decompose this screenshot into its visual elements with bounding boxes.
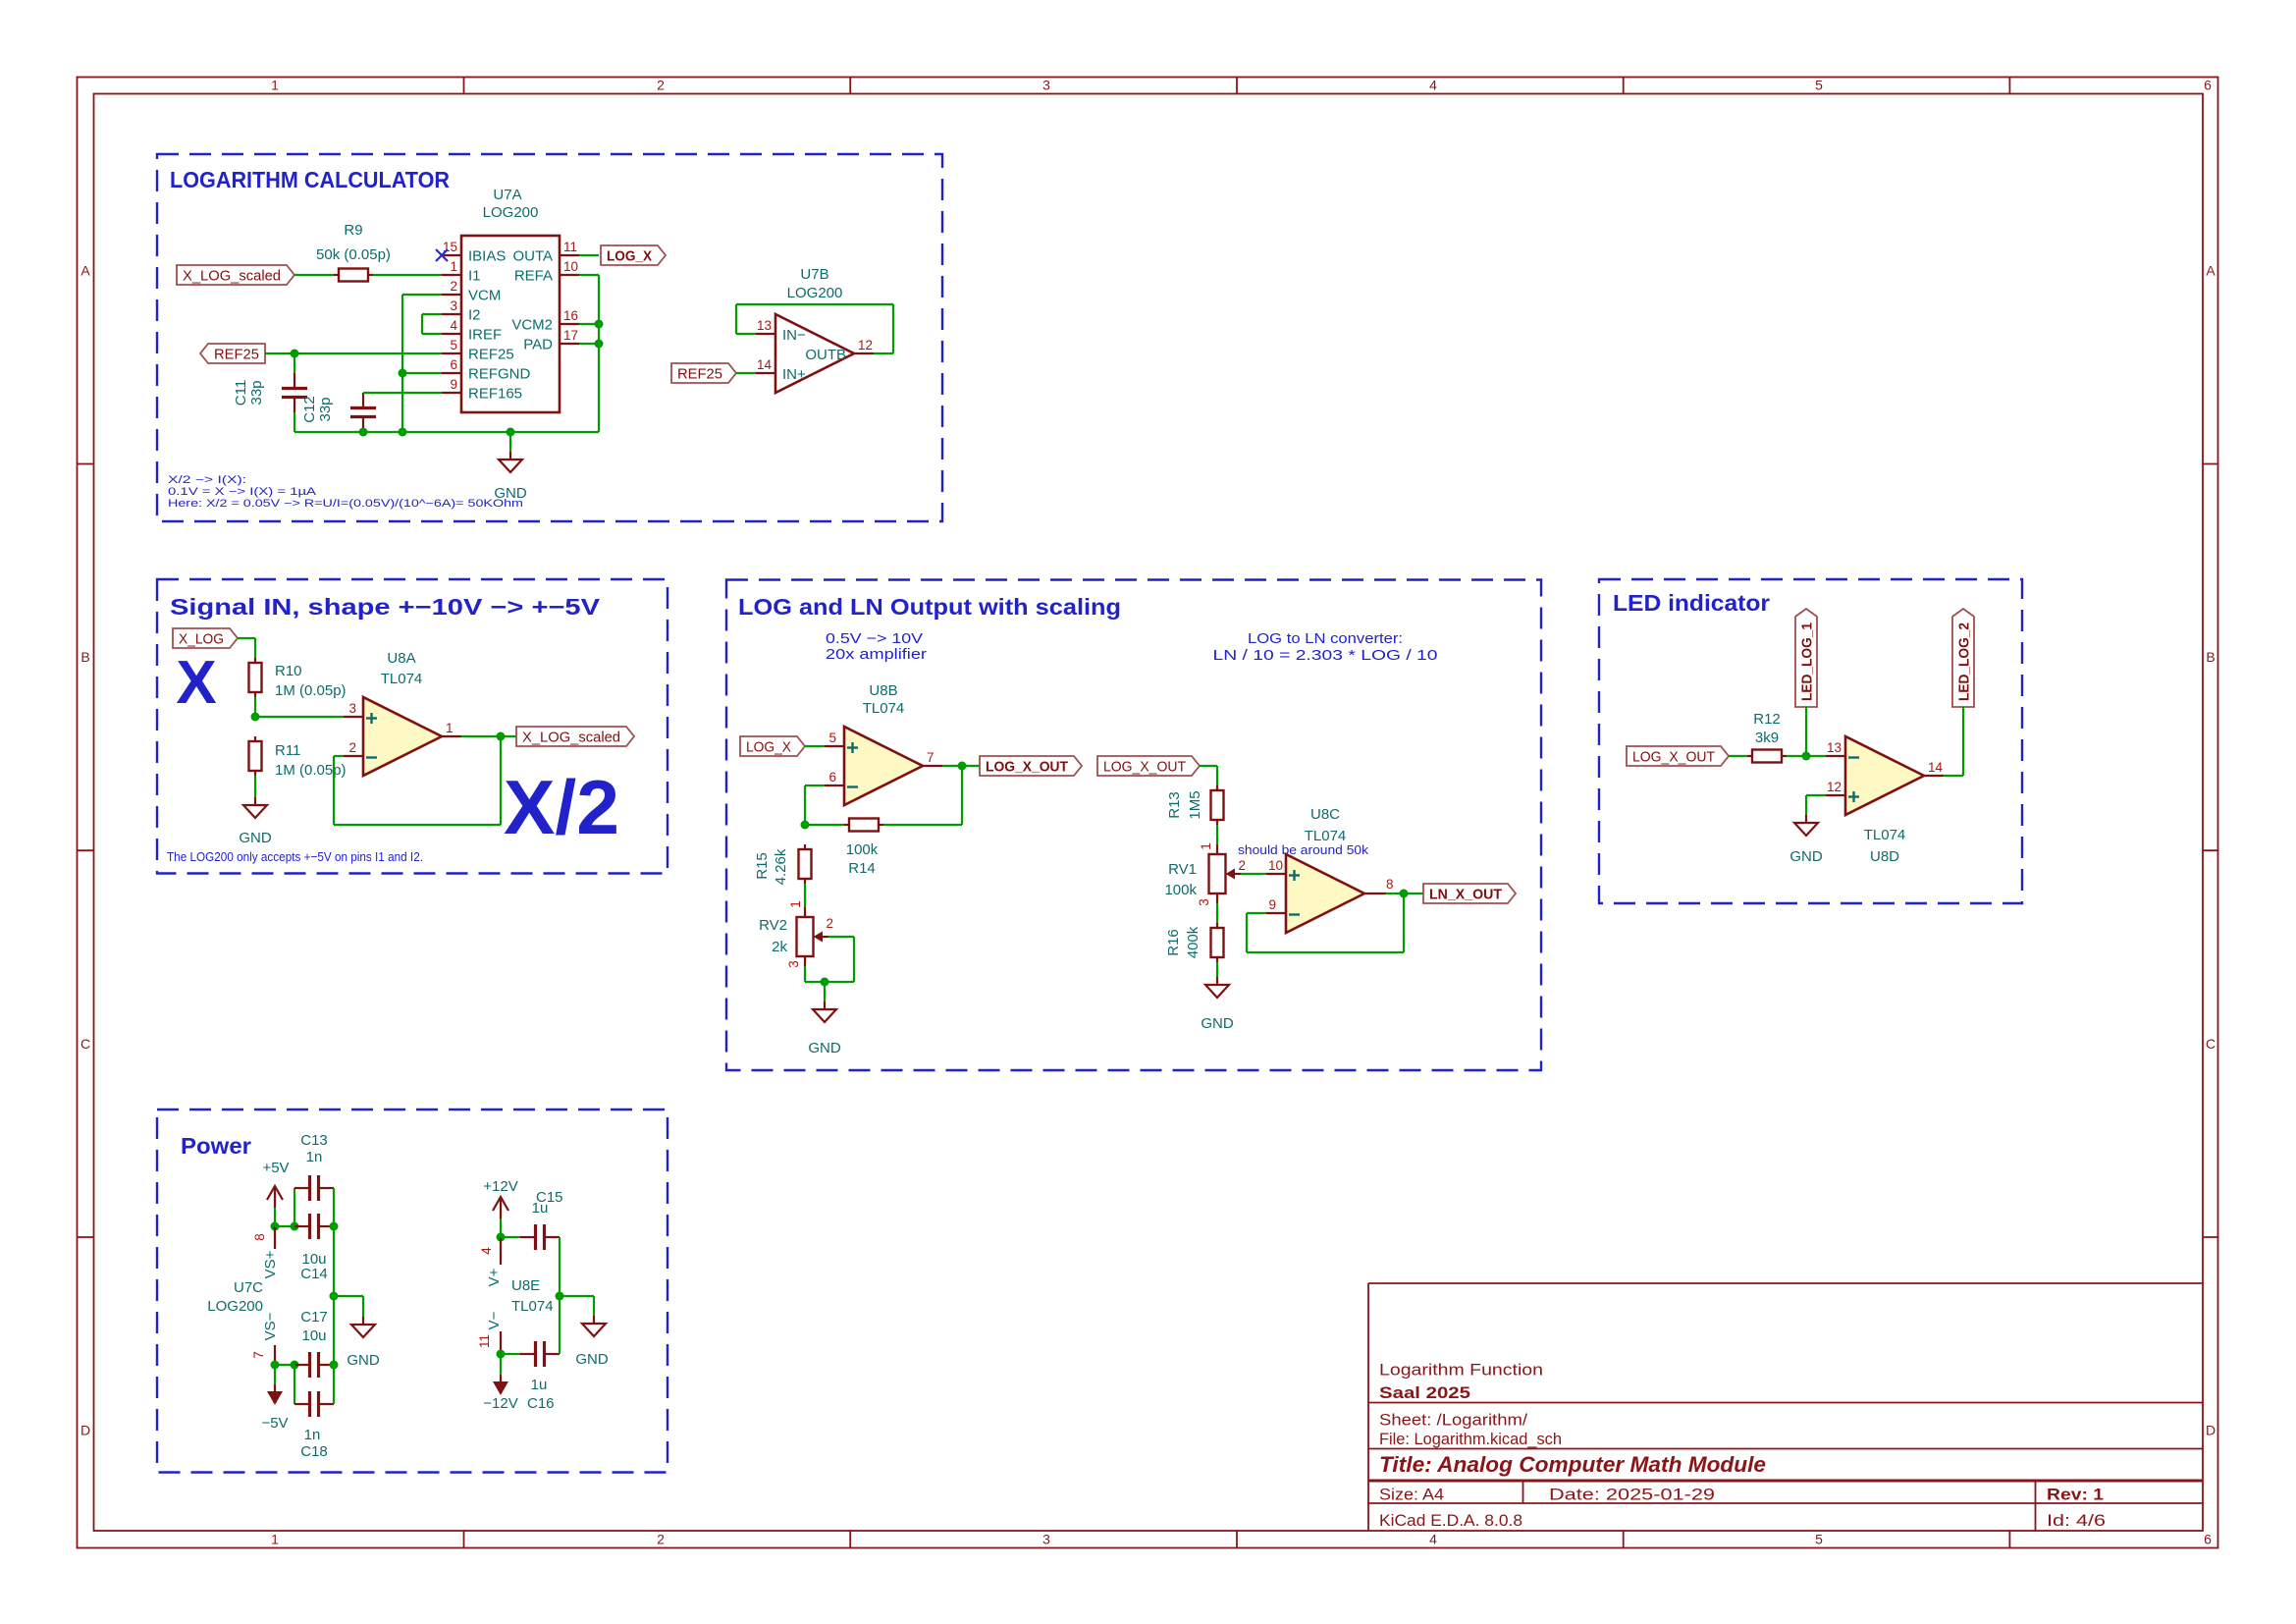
wire PAD [579, 343, 599, 345]
power +5V arrow [267, 1186, 283, 1226]
wire to U7A pin 6 REFGND [402, 372, 442, 374]
svg-text:100k: 100k [846, 841, 879, 858]
wire C11 to ground rail [294, 412, 295, 432]
power +12V arrow [493, 1197, 508, 1237]
svg-text:LOGARITHM CALCULATOR: LOGARITHM CALCULATOR [170, 167, 450, 192]
U8C pin 8 output [1364, 877, 1394, 893]
wire -5V rail [275, 1364, 294, 1366]
wire REF25 to U7B IN+ [736, 372, 756, 374]
svg-text:10: 10 [563, 259, 578, 274]
svg-text:5: 5 [1815, 1532, 1823, 1547]
svg-text:100k: 100k [1164, 882, 1197, 898]
svg-text:C18: C18 [300, 1443, 328, 1460]
svg-text:LOG200: LOG200 [207, 1298, 263, 1315]
svg-text:2: 2 [450, 279, 457, 294]
svg-text:Logarithm Function: Logarithm Function [1379, 1361, 1543, 1380]
resistor R14 [844, 819, 883, 832]
svg-text:1: 1 [271, 1532, 279, 1547]
wire LOG_X_OUT [1200, 765, 1217, 767]
hierarchical label LOG_X (box3) [740, 736, 805, 756]
svg-text:LED_LOG_1: LED_LOG_1 [1799, 623, 1816, 701]
wire C13 right leg [333, 1188, 335, 1226]
R14 labels [846, 841, 879, 877]
potentiometer RV2 2k [797, 907, 829, 966]
wire +5V rail [275, 1225, 294, 1227]
svg-text:5: 5 [828, 731, 836, 745]
wire U7B feedback 3 [736, 303, 893, 305]
op-amp U8C labels [1305, 806, 1347, 844]
svg-text:TL074: TL074 [1864, 827, 1906, 843]
wire to ground (box5 right) [560, 1295, 594, 1297]
U8E labels [511, 1277, 554, 1315]
svg-text:Rev: 1: Rev: 1 [2047, 1486, 2104, 1504]
svg-text:1M (0.05p): 1M (0.05p) [275, 682, 347, 699]
svg-text:2k: 2k [772, 939, 787, 955]
junction PAD [595, 340, 604, 349]
svg-text:6: 6 [450, 357, 457, 372]
svg-text:13: 13 [757, 318, 772, 333]
resistor R15 [799, 844, 812, 884]
wire U8B fb down [804, 785, 806, 825]
wire U8C output [1386, 893, 1423, 894]
svg-text:IBIAS: IBIAS [468, 248, 506, 265]
svg-text:LED_LOG_2: LED_LOG_2 [1956, 623, 1973, 701]
wire C12 to U7A pin 9 REF165 [363, 392, 442, 394]
svg-text:REF25: REF25 [677, 366, 722, 383]
resistor R9 [334, 269, 373, 282]
svg-text:1: 1 [446, 721, 454, 735]
svg-text:1: 1 [271, 78, 279, 93]
wire to U7A pin 3 I2 [422, 313, 442, 315]
wire R14 to output [883, 824, 962, 826]
svg-text:6: 6 [828, 770, 836, 785]
svg-text:IN−: IN− [782, 327, 806, 344]
svg-text:2: 2 [657, 78, 665, 93]
svg-text:3: 3 [348, 701, 356, 716]
svg-text:Id: 4/6: Id: 4/6 [2047, 1511, 2106, 1530]
wire to U7A pin 2 VCM [402, 294, 442, 296]
wire gnd drop [362, 1296, 364, 1317]
svg-text:VCM2: VCM2 [511, 317, 553, 334]
svg-text:LED indicator: LED indicator [1613, 590, 1770, 616]
wire gnd drop right [593, 1296, 595, 1316]
svg-text:A: A [80, 263, 90, 279]
op-amp U7B LOG200 [775, 314, 854, 393]
wire wiper down [853, 937, 855, 982]
svg-text:B: B [80, 649, 89, 665]
junction REFGND [399, 369, 407, 378]
wire R12 to U8D [1787, 755, 1826, 757]
U7A pin 4 IREF [442, 318, 502, 344]
ground GND (RV2) [813, 1001, 836, 1022]
wire C18 right leg [333, 1365, 335, 1404]
svg-text:1n: 1n [306, 1149, 323, 1165]
wire U8A feedback 2 [333, 756, 335, 825]
U7B pin 14 IN+ [756, 357, 806, 383]
wire C16 right up [559, 1296, 561, 1354]
ground GND (box5 left) [351, 1317, 375, 1337]
U7A pin 9 REF165 [442, 377, 522, 403]
svg-text:LOG_X: LOG_X [746, 739, 791, 756]
R9 labels [316, 222, 391, 263]
hierarchical label REF25 (U7B) [671, 363, 736, 383]
svg-text:11: 11 [563, 240, 577, 254]
svg-text:Date: 2025-01-29: Date: 2025-01-29 [1549, 1486, 1715, 1504]
svg-text:REF25: REF25 [468, 347, 514, 363]
svg-text:C14: C14 [300, 1266, 328, 1282]
svg-text:2: 2 [657, 1532, 665, 1547]
svg-text:X/2 −> I(X):: X/2 −> I(X): [168, 474, 246, 486]
wire U7B feedback 1 [736, 333, 756, 335]
wire R15 to RV2 [804, 884, 806, 907]
U8D pin 13 - [1826, 740, 1859, 758]
hierarchical label LED_LOG_2 [1952, 609, 1974, 707]
junction GND stub [507, 428, 515, 437]
junction U8A output [497, 732, 506, 741]
wire to R14 [805, 824, 844, 826]
junction gnd branch [330, 1292, 339, 1301]
svg-text:VS+: VS+ [262, 1250, 279, 1278]
svg-text:File: Logarithm.kicad_sch: File: Logarithm.kicad_sch [1379, 1430, 1562, 1448]
svg-text:X_LOG_scaled: X_LOG_scaled [183, 268, 281, 285]
svg-text:3: 3 [450, 298, 457, 313]
wire U8A feedback 3 [334, 824, 501, 826]
svg-text:GND: GND [347, 1352, 380, 1369]
svg-text:2: 2 [1238, 858, 1246, 873]
svg-text:1u: 1u [532, 1200, 549, 1217]
R15 labels [754, 848, 789, 885]
capacitor C15 1u [520, 1224, 560, 1250]
hierarchical label X_LOG [173, 628, 238, 648]
svg-text:R9: R9 [344, 222, 362, 239]
svg-text:X_LOG: X_LOG [179, 631, 224, 648]
svg-text:REF165: REF165 [468, 386, 522, 403]
hierarchical label LOG_X_OUT (in) [1097, 756, 1200, 776]
op-amp U8C TL074 [1286, 854, 1364, 933]
junction node REF25 / C11 [291, 350, 299, 358]
junction C17 left [291, 1361, 299, 1370]
svg-text:LN_X_OUT: LN_X_OUT [1429, 887, 1502, 903]
svg-text:3k9: 3k9 [1755, 730, 1779, 746]
svg-text:4: 4 [450, 318, 457, 333]
capacitor C17 10u [294, 1352, 334, 1378]
note 0.5V -> 10V [826, 630, 927, 663]
svg-text:U8B: U8B [869, 682, 897, 699]
svg-text:12: 12 [1827, 780, 1842, 794]
svg-text:U8A: U8A [387, 650, 415, 667]
svg-text:2: 2 [826, 916, 833, 931]
wire RV1 to R16 [1216, 903, 1218, 923]
svg-text:REFGND: REFGND [468, 366, 531, 383]
wire +12V to C15 [501, 1236, 520, 1238]
svg-text:−5V: −5V [261, 1415, 288, 1432]
svg-text:1M5: 1M5 [1187, 790, 1203, 819]
wire R13 to RV1 [1216, 825, 1218, 844]
wire C13 left leg [294, 1188, 295, 1226]
wire U8C fb 3 [1247, 951, 1404, 953]
resistor R16 [1211, 923, 1224, 962]
wire RV1 wiper to U8C [1241, 873, 1266, 875]
U7A pin 10 REFA [514, 259, 579, 285]
junction VCM2 [595, 320, 604, 329]
svg-text:9: 9 [450, 377, 457, 392]
wire -12V to C16 [501, 1353, 520, 1355]
svg-text:1M (0.05p): 1M (0.05p) [275, 762, 347, 779]
wire LOG_X_OUT to R12 [1729, 755, 1747, 757]
wire X_LOG down [254, 638, 256, 658]
svg-text:7: 7 [927, 750, 934, 765]
junction +12V [497, 1233, 506, 1242]
svg-text:+12V: +12V [483, 1178, 517, 1195]
junction C17/C18 right [330, 1361, 339, 1370]
wire to ground (box5 left) [334, 1295, 363, 1297]
U7A pin 11 OUTA [512, 240, 579, 265]
svg-text:33p: 33p [248, 380, 265, 405]
svg-text:13: 13 [1827, 740, 1842, 755]
hierarchical label REF25 [200, 344, 265, 363]
svg-text:LOG_X_OUT: LOG_X_OUT [1103, 759, 1186, 776]
wire REFA [579, 274, 599, 276]
wire VCM net vertical [401, 295, 403, 432]
svg-text:GND: GND [575, 1351, 609, 1368]
wire to ground (U8D) [1805, 795, 1807, 815]
svg-text:Power: Power [181, 1133, 251, 1159]
C17 labels [300, 1309, 328, 1344]
wire fb vertical [961, 766, 963, 825]
junction LED_LOG_1 [1802, 752, 1811, 761]
svg-text:IN+: IN+ [782, 366, 806, 383]
svg-text:R15: R15 [754, 852, 771, 880]
U7A pin 6 REFGND [442, 357, 531, 383]
svg-text:R13: R13 [1166, 791, 1183, 819]
capacitor C13 1n [294, 1175, 334, 1201]
section box: LED indicator [1599, 579, 2022, 903]
resistor R10 [249, 658, 262, 697]
wire U8C fb 2 [1246, 913, 1248, 952]
op-amp U8B TL074 [844, 727, 923, 805]
C11 labels [233, 380, 265, 406]
op-amp U8A labels [381, 650, 423, 687]
svg-text:U8E: U8E [511, 1277, 540, 1294]
svg-text:RV1: RV1 [1168, 861, 1197, 878]
svg-text:7: 7 [251, 1351, 266, 1359]
R16 labels [1165, 926, 1201, 958]
svg-text:4: 4 [1429, 78, 1437, 93]
U7C pin 8 VS+ [252, 1226, 279, 1278]
svg-text:GND: GND [239, 830, 272, 846]
svg-text:14: 14 [757, 357, 773, 372]
note text box1 [168, 474, 523, 510]
svg-text:C12: C12 [301, 396, 318, 423]
title block [1368, 1283, 2203, 1531]
svg-text:R14: R14 [848, 860, 876, 877]
wire mid rail [333, 1226, 335, 1365]
svg-text:should be around 50k: should be around 50k [1238, 843, 1369, 857]
wire REFA vertical to ground rail [598, 275, 600, 432]
junction VCM/ground rail [399, 428, 407, 437]
U8B pin 5 + [825, 731, 858, 753]
svg-text:I2: I2 [468, 307, 481, 324]
wire U8C fb 4 [1403, 893, 1405, 952]
no-connect pin 15 [436, 249, 448, 261]
svg-text:3: 3 [1042, 78, 1050, 93]
svg-text:R10: R10 [275, 663, 302, 679]
svg-text:C: C [80, 1036, 90, 1052]
R13 labels [1166, 790, 1203, 819]
svg-text:REFA: REFA [514, 268, 553, 285]
C13 labels [300, 1132, 328, 1165]
section box: Signal IN [157, 579, 667, 874]
svg-text:16: 16 [563, 308, 578, 323]
hierarchical label X_LOG_scaled [177, 265, 294, 285]
hierarchical label LOG_X [601, 245, 666, 265]
svg-text:0.5V −> 10V: 0.5V −> 10V [826, 630, 923, 647]
wire REF25 to U7A pin 5 [265, 352, 442, 354]
IC U7A LOG200 [461, 187, 560, 412]
R12 labels [1753, 711, 1781, 746]
svg-text:I1: I1 [468, 268, 481, 285]
U7B pin 12 OUTB [805, 338, 874, 363]
wire U8B fb [805, 785, 825, 786]
U7A pin 2 VCM [442, 279, 501, 304]
section box: LOG and LN Output [726, 580, 1541, 1071]
wire C15 right down [559, 1237, 561, 1296]
op-amp U7B labels [787, 266, 843, 301]
resistor R13 [1211, 785, 1224, 825]
svg-text:1: 1 [450, 259, 457, 274]
svg-text:A: A [2206, 263, 2216, 279]
svg-text:TL074: TL074 [1305, 828, 1347, 844]
U8B pin 6 - [825, 770, 858, 787]
svg-text:LOG_X: LOG_X [607, 248, 652, 265]
capacitor C14 10u [294, 1214, 334, 1239]
U7A pin 1 I1 [442, 259, 481, 285]
svg-text:GND: GND [808, 1040, 841, 1056]
section box: Power [157, 1110, 667, 1473]
resistor R12 [1747, 750, 1787, 763]
hierarchical label LED_LOG_1 [1795, 609, 1817, 707]
wire VCM2 [579, 323, 599, 325]
svg-text:3: 3 [786, 960, 801, 968]
svg-text:9: 9 [1268, 897, 1276, 912]
RV1 pin numbers [1197, 842, 1246, 906]
wire LED_LOG_2 down [1962, 707, 1964, 776]
svg-text:TL074: TL074 [381, 671, 423, 687]
wire LOG_X to U8B [805, 745, 825, 747]
svg-text:V−: V− [486, 1311, 503, 1329]
svg-text:Sheet: /Logarithm/: Sheet: /Logarithm/ [1379, 1411, 1527, 1430]
ground GND (R16) [1205, 977, 1229, 998]
junction -12V [497, 1350, 506, 1359]
svg-text:2: 2 [348, 740, 356, 755]
wire R10 to junction [254, 697, 256, 717]
svg-text:4: 4 [479, 1247, 494, 1255]
U8A pin 3 + [344, 701, 377, 724]
svg-text:−12V: −12V [483, 1395, 517, 1412]
U7C pin 7 VS- [251, 1312, 279, 1365]
capacitor C12 33p [350, 393, 376, 432]
svg-text:U7B: U7B [800, 266, 828, 283]
svg-text:3: 3 [1042, 1532, 1050, 1547]
capacitor C11 33p [282, 373, 307, 412]
U7B pin 13 IN- [756, 318, 806, 344]
svg-text:Here: X/2 = 0.05V −> R=U/I=(0.: Here: X/2 = 0.05V −> R=U/I=(0.05V)/(10^−… [168, 498, 523, 510]
svg-text:The LOG200 only accepts +−5V o: The LOG200 only accepts +−5V on pins I1 … [167, 849, 423, 864]
svg-text:D: D [80, 1423, 90, 1438]
junction R14/R15 [801, 821, 810, 830]
C15 labels [532, 1189, 563, 1217]
svg-text:50k (0.05p): 50k (0.05p) [316, 246, 391, 263]
wire X_LOG_scaled to R9 [294, 274, 334, 276]
svg-text:LOG_X_OUT: LOG_X_OUT [1632, 749, 1715, 766]
power -5V arrow [267, 1384, 283, 1405]
svg-text:3: 3 [1197, 898, 1211, 906]
U7A pin 5 REF25 [442, 338, 514, 363]
wire LED_LOG_1 down [1805, 707, 1807, 756]
svg-text:6: 6 [2204, 78, 2212, 93]
svg-text:20x amplifier: 20x amplifier [826, 646, 927, 663]
wire U8A feedback 1 [334, 755, 344, 757]
svg-text:12: 12 [858, 338, 873, 352]
wire OUTA to LOG_X [579, 254, 599, 256]
wire to U7A pin 4 IREF [422, 333, 442, 335]
U8D pin 14 output [1924, 760, 1944, 776]
svg-text:1u: 1u [531, 1377, 548, 1393]
svg-text:PAD: PAD [523, 337, 553, 353]
svg-text:KiCad E.D.A. 8.0.8: KiCad E.D.A. 8.0.8 [1379, 1511, 1522, 1530]
svg-text:TL074: TL074 [511, 1298, 554, 1315]
RV1 labels [1164, 861, 1197, 898]
svg-text:6: 6 [2204, 1532, 2212, 1547]
wire to U8A pin 3 [255, 716, 344, 718]
wire R16 to ground [1216, 962, 1218, 977]
wire R11 to ground [254, 776, 256, 797]
ground GND [499, 452, 522, 472]
wire C18 left leg [294, 1365, 295, 1404]
svg-text:Size: A4: Size: A4 [1379, 1486, 1444, 1504]
svg-text:C17: C17 [300, 1309, 328, 1326]
ground GND (box5 right) [582, 1316, 606, 1336]
svg-text:LN / 10 = 2.303 * LOG / 10: LN / 10 = 2.303 * LOG / 10 [1213, 647, 1438, 664]
wire RV2 pin3 down [804, 966, 806, 982]
U8C pin 10 + [1266, 858, 1300, 881]
wire RV2 wiper [828, 936, 854, 938]
capacitor C18 1n [294, 1391, 334, 1417]
C14 labels [300, 1251, 328, 1282]
hierarchical label LOG_X_OUT (out) [980, 756, 1082, 776]
svg-text:V+: V+ [486, 1268, 503, 1286]
svg-text:X: X [176, 649, 216, 717]
svg-text:+5V: +5V [262, 1160, 289, 1176]
wire U8D output [1944, 775, 1963, 777]
U8C pin 9 - [1266, 897, 1300, 915]
wire to ground (RV2) [824, 982, 826, 1001]
junction U8B output [958, 762, 967, 771]
U7C labels [207, 1279, 263, 1315]
junction R10/R11 [251, 713, 260, 722]
potentiometer RV1 100k [1209, 844, 1242, 903]
op-amp U8D TL074 [1845, 736, 1924, 815]
U8A pin 2 - [344, 740, 377, 758]
C12 labels [301, 396, 334, 423]
U8E pin 11 V- [477, 1311, 503, 1354]
wire to -12V [500, 1354, 502, 1375]
U7A pin 17 PAD [523, 328, 579, 353]
svg-text:LOG200: LOG200 [787, 285, 843, 301]
svg-text:10u: 10u [301, 1327, 326, 1344]
svg-text:B: B [2206, 649, 2215, 665]
note LOG to LN converter [1213, 630, 1438, 664]
